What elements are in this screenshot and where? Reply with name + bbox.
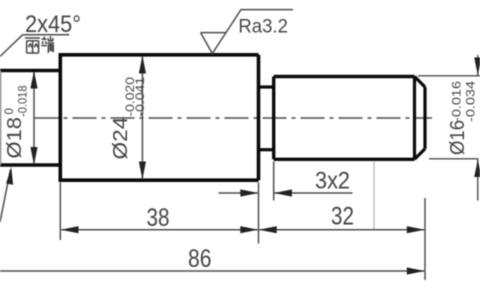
- shaft outline: phi18 section top edge: [0, 69, 60, 72]
- extension line at step x=60: [59, 183, 61, 241]
- shaft outline: phi18 section bottom edge: [0, 163, 60, 166]
- shaft outline: step shoulder phi18 to phi24: [58, 55, 62, 180]
- svg-text:38: 38: [147, 204, 170, 232]
- dimension phi16: dim line upper segment: [477, 55, 479, 76]
- svg-text:86: 86: [188, 245, 212, 273]
- extension line at shoulder x=258.5: [258, 183, 260, 244]
- chamfer note 2x45 leader diagonal: [0, 35, 23, 57]
- leader arrow to bottom-left surface: [0, 170, 11, 223]
- chamfer note 2x45 shelf underline: [23, 34, 70, 36]
- svg-text:3x2: 3x2: [315, 168, 350, 195]
- chamfer edge circle line on phi16: [413, 77, 416, 160]
- faint stray vertical line x=374: [373, 162, 375, 231]
- dimension 3x2: left line with right-pointing arrow: [219, 192, 258, 194]
- dimension phi24: text: [109, 77, 147, 160]
- dimension phi18: arrow up: [30, 71, 37, 89]
- dimension phi16: arrow up at bottom ext: [474, 159, 480, 177]
- svg-text:-0.041: -0.041: [135, 77, 147, 117]
- groove 3x2: right wall: [272, 77, 275, 160]
- dimension 32: line: [260, 229, 425, 231]
- dimension phi18: arrow down: [30, 147, 37, 165]
- surface roughness symbol Ra3.2: [201, 10, 293, 54]
- dimension 86: line: [0, 270, 424, 272]
- dimension phi16: bottom extension line: [429, 158, 479, 160]
- groove 3x2: bottom-of-groove top line: [259, 85, 274, 88]
- svg-text:-0.034: -0.034: [466, 80, 478, 122]
- centerline (dash-dot axis): [35, 117, 433, 119]
- svg-text:-0.016: -0.016: [452, 81, 464, 122]
- dimension 38: line: [62, 229, 258, 231]
- shaft outline: phi24 section top edge: [59, 53, 259, 57]
- shaft outline: phi16 section bottom edge: [274, 158, 415, 161]
- svg-text:Ra3.2: Ra3.2: [238, 17, 288, 38]
- shaft outline: phi24 section bottom edge: [59, 178, 259, 182]
- hanzi liang (both): [25, 38, 40, 53]
- svg-text:0: 0: [4, 108, 16, 114]
- dimension 86: right arrow: [407, 267, 425, 274]
- shaft outline: phi24 right shoulder / groove left wall: [257, 55, 261, 180]
- chamfer top diagonal 2x45: [415, 77, 426, 88]
- dimension phi16: arrow down at top ext: [474, 58, 480, 76]
- dimension 3x2: right shelf line with left-pointing arrow: [275, 192, 353, 194]
- dimension phi18: text: [3, 86, 30, 159]
- dimension 38: right arrow: [240, 226, 258, 233]
- shaft outline: phi16 section top edge: [274, 75, 415, 78]
- shaft outline: left end face sliver at image edge: [0, 71, 2, 166]
- dimension phi24: line: [141, 56, 143, 179]
- groove 3x2: bottom-of-groove bottom line: [259, 148, 274, 151]
- dimension phi16: text: [446, 80, 478, 155]
- dimension phi24: arrow down: [139, 162, 146, 180]
- hanzi duan (end): [41, 36, 54, 53]
- dimension phi16: dim line lower segment: [477, 159, 479, 201]
- svg-text:Ø16: Ø16: [446, 120, 469, 155]
- svg-text:Ø24: Ø24: [109, 117, 132, 160]
- dimension phi18: line: [33, 72, 35, 164]
- dimension phi16: top extension line: [418, 75, 480, 77]
- dimension phi24: arrow up: [139, 56, 146, 74]
- dimension 32: right arrow: [407, 226, 425, 233]
- chamfer bottom diagonal 2x45: [415, 149, 426, 160]
- shaft right end face: [423, 87, 426, 149]
- svg-text:32: 32: [331, 203, 354, 231]
- svg-text:-0.018: -0.018: [18, 86, 30, 118]
- dimension 32: left arrow: [259, 226, 277, 233]
- svg-text:Ø18: Ø18: [3, 117, 26, 159]
- dimension 38: left arrow: [61, 226, 79, 233]
- extension line shaft right end x=425: [424, 198, 426, 280]
- svg-text:2x45°: 2x45°: [25, 11, 81, 38]
- extension line groove right x=273.7: [273, 162, 275, 201]
